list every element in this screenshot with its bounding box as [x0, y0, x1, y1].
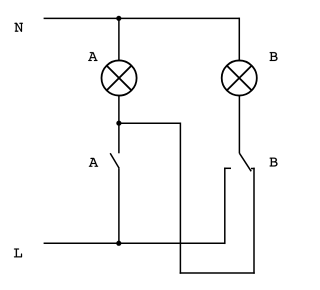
switch A label — [89, 158, 98, 167]
wire strapping bottom horizontal — [180, 272, 254, 274]
switch B label — [270, 158, 278, 167]
junction dot on N bus — [116, 16, 121, 21]
switch B left contact tick — [224, 167, 231, 169]
wire L bus up to switch B left contact — [224, 168, 226, 243]
junction dot on L bus — [116, 241, 121, 246]
switch A blade (open) — [110, 153, 119, 168]
switch B right contact tick — [251, 168, 255, 170]
wire N bus (top horizontal) — [44, 17, 240, 19]
net L label — [14, 248, 22, 257]
wire L bus (bottom horizontal) — [44, 242, 225, 244]
lamp B label — [270, 52, 278, 61]
lamp B — [222, 60, 257, 95]
junction dot below lamp A — [116, 121, 121, 126]
wire node to strapping (horizontal) — [119, 122, 180, 124]
wire N bus down to lamp B — [238, 18, 240, 60]
wire switch A to L bus — [118, 168, 120, 243]
net N label — [14, 23, 22, 32]
wire up to switch B right contact — [253, 168, 255, 273]
lamp A — [102, 60, 137, 95]
wire lamp A to node (switch A top) — [118, 96, 120, 154]
wire lamp B to switch B blade — [238, 96, 240, 154]
lamp A label — [88, 52, 97, 61]
wire strapping vertical down — [179, 123, 181, 273]
switch B blade (closed to right contact) — [239, 153, 251, 171]
wire N bus to lamp A — [118, 18, 120, 60]
